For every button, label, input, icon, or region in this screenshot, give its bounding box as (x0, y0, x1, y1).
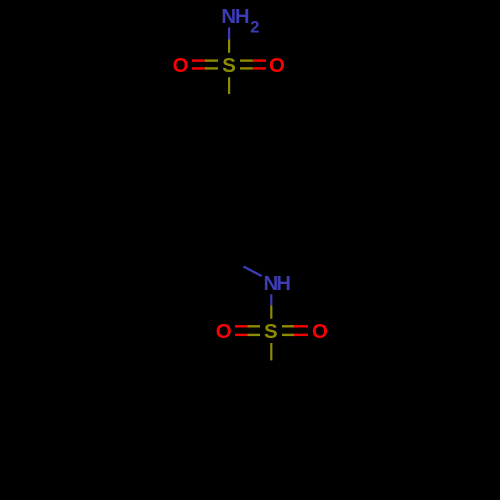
svg-text:H: H (276, 273, 291, 295)
bond C-N2 (N half, diagonal stub) (243, 267, 261, 277)
svg-text:O: O (173, 55, 189, 77)
bond S2-C (S half stub) (270, 343, 272, 360)
double bond S1=O1 lower line (O half) (192, 67, 205, 69)
double bond S1=O2 lower line (O half) (253, 67, 266, 69)
bond N1-S1 (S half) (228, 40, 230, 53)
svg-text:2: 2 (250, 18, 259, 36)
double bond S2=O4 lower line (O half) (294, 334, 308, 336)
svg-text:S: S (222, 55, 236, 77)
double bond S2=O3 upper line (S half) (247, 325, 260, 327)
svg-text:O: O (312, 321, 328, 343)
double bond S2=O4 lower line (S half) (282, 334, 294, 336)
double bond S2=O3 upper line (O half) (235, 325, 247, 327)
double bond S2=O4 upper line (O half) (294, 325, 308, 327)
svg-text:O: O (269, 55, 285, 77)
svg-text:S: S (264, 321, 278, 343)
double bond S1=O1 upper line (S half) (205, 59, 218, 61)
atom label N2 (NH) (264, 273, 291, 295)
double bond S2=O3 lower line (S half) (247, 334, 260, 336)
svg-text:O: O (216, 321, 232, 343)
double bond S1=O2 upper line (S half) (240, 59, 253, 61)
double bond S1=O1 lower line (S half) (205, 67, 218, 69)
double bond S1=O2 lower line (S half) (240, 67, 253, 69)
atom label N1 (NH2 of sulfonamide) (221, 6, 259, 36)
bond N2-S2 (N half) (270, 294, 272, 305)
double bond S2=O4 upper line (S half) (282, 325, 294, 327)
bond N2-S2 (S half) (270, 305, 272, 318)
double bond S2=O3 lower line (O half) (235, 334, 247, 336)
bond S1-C (S half stub) (228, 77, 230, 94)
bond N1-S1 (N half) (228, 27, 230, 39)
double bond S1=O2 upper line (O half) (253, 59, 266, 61)
svg-text:H: H (235, 6, 250, 28)
double bond S1=O1 upper line (O half) (192, 59, 205, 61)
